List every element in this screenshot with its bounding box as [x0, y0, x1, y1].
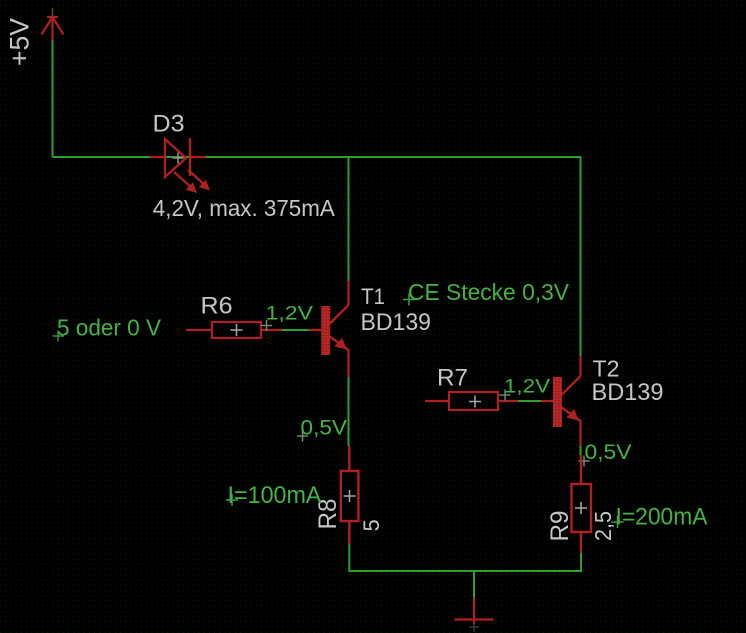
ground symbol [455, 598, 494, 625]
svg-text:I=200mA: I=200mA [616, 504, 708, 531]
resistor R9 center cross [575, 502, 587, 514]
wire top horizontal [53, 156, 582, 158]
svg-text:R9: R9 [546, 511, 574, 542]
ground origin cross [469, 622, 479, 632]
T1 emitter diagonal [329, 336, 349, 350]
wire +5V vertical [52, 40, 54, 157]
T2 emitter diagonal [561, 407, 581, 421]
value label 1,2V cross [261, 320, 272, 331]
T2 base pin [541, 400, 553, 402]
svg-text:R7: R7 [437, 365, 468, 392]
wire R9 down [580, 553, 582, 572]
T2 collector diagonal [561, 376, 581, 396]
value label I=200mA cross [612, 516, 624, 528]
svg-text:BD139: BD139 [592, 379, 664, 406]
supply symbol +5V [42, 17, 64, 40]
svg-text:D3: D3 [153, 111, 185, 138]
net label CE Stecke 0,3V cross [403, 294, 415, 306]
T2 base bar [553, 377, 562, 427]
resistor R8 [341, 446, 359, 544]
resistor R9 [572, 455, 592, 553]
wire R8 down [348, 544, 350, 572]
wire R6 to T1 base [282, 329, 309, 331]
svg-text:I=100mA: I=100mA [228, 482, 322, 509]
resistor R7 center cross [469, 396, 481, 408]
svg-text:BD139: BD139 [361, 309, 432, 336]
svg-text:T2: T2 [593, 356, 620, 382]
svg-text:R6: R6 [201, 293, 233, 320]
T1 base bar [321, 306, 330, 355]
supply pin cross [52, 8, 54, 17]
ground wire [473, 571, 475, 598]
net value 0,5V cross [297, 431, 308, 442]
svg-text:1,2V: 1,2V [266, 304, 314, 325]
svg-text:5 oder 0 V: 5 oder 0 V [57, 315, 162, 341]
wire T1 emitter down [348, 377, 350, 446]
T1 emitter arrowhead [334, 338, 346, 350]
T1 base pin [309, 329, 321, 331]
svg-text:5: 5 [359, 519, 384, 531]
LED D3 origin cross [173, 153, 184, 164]
svg-text:+5V: +5V [5, 18, 35, 66]
svg-text:4,2V, max. 375mA: 4,2V, max. 375mA [153, 195, 335, 221]
T2 emitter pin [579, 420, 581, 446]
T2 collector pin [579, 356, 581, 376]
wire T2 emitter short [580, 446, 582, 455]
T2 emitter arrowhead [566, 409, 578, 421]
wire T1 collector up [348, 156, 350, 281]
svg-text:CE Stecke 0,3V: CE Stecke 0,3V [408, 279, 570, 305]
net label cross [53, 331, 65, 342]
T1 emitter pin [347, 349, 349, 377]
wire R7 to T2 base [518, 400, 541, 402]
T1 collector pin [347, 281, 349, 305]
LED D3 arrowheads [186, 182, 198, 193]
net value 0,5V cross (T2) [579, 456, 590, 467]
wire bottom bus [349, 570, 581, 572]
resistor R7 [425, 392, 518, 410]
svg-text:0,5V: 0,5V [301, 417, 348, 440]
svg-text:0,5V: 0,5V [585, 441, 632, 464]
svg-text:1,2V: 1,2V [504, 377, 550, 398]
resistor R6 [186, 322, 282, 338]
resistor R6 center cross [231, 324, 243, 336]
wire T2 collector up [580, 156, 582, 356]
T1 collector diagonal [329, 305, 349, 325]
resistor R8 center cross [344, 490, 356, 502]
value label 1,2V cross (T2) [500, 390, 511, 401]
svg-text:T1: T1 [361, 284, 385, 309]
LED D3 [150, 138, 206, 188]
value label I=100mA cross [226, 494, 238, 506]
svg-text:2,5: 2,5 [590, 511, 616, 541]
